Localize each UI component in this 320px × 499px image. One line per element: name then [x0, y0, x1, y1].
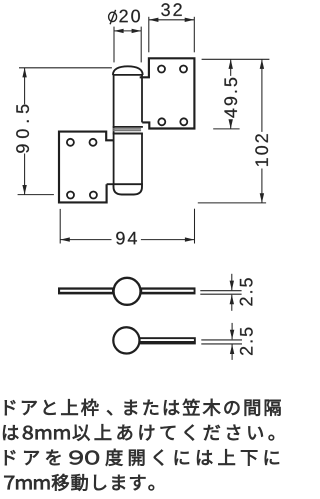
hinge knuckle top dome: [113, 66, 143, 75]
upper leaf plate (right): [140, 58, 195, 128]
hinge knuckle right edge upper: [141, 75, 143, 123]
dimension 102 line upper segment: [261, 59, 263, 132]
dimension 94 label: [116, 232, 137, 245]
dimension phi20 arrow line: [114, 30, 141, 32]
fig1 dimension 2.5 arrows: [231, 274, 233, 290]
fig1 thickness extension lines: [200, 290, 241, 292]
dimension 102 line lower segment: [261, 169, 263, 203]
hinge knuckle bottom cap line: [107, 183, 143, 185]
upper plate screw hole bottom-right: [180, 118, 187, 125]
upper plate screw hole top-left: [158, 66, 165, 73]
dimension 102 label: [255, 134, 268, 166]
hinge knuckle top cap line: [113, 74, 143, 76]
dimension 94 line left segment: [60, 239, 111, 241]
lower plate screw hole bottom-right: [90, 192, 97, 199]
dimension 49.5 bottom extension line: [213, 128, 239, 130]
fig2 dimension 2.5 arrows: [231, 323, 233, 339]
dimension 90.5 top extension line: [19, 67, 112, 69]
dimension 49.5 label: [224, 78, 237, 118]
lower leaf plate (left): [59, 132, 114, 203]
knuckle junction gray line 1: [113, 128, 141, 130]
knuckle junction line lower: [113, 133, 143, 135]
dimension 90.5 bottom extension line: [18, 194, 54, 196]
dimension phi20 label: phi symbol: [109, 12, 117, 21]
caption line 2: は8mm以上あけてください。: [3, 424, 274, 441]
caption line 3: ドアを９０度開くには上下に: [5, 449, 279, 466]
shared top extension line for 49.5 and 102: [202, 58, 270, 60]
caption line 1: ドアと上枠、または笠木の間隔: [5, 399, 281, 416]
fig2 thickness extension lines: [201, 339, 242, 341]
dimension 49.5 line upper segment: [230, 59, 232, 76]
top view fig1 right leaf strip: [141, 287, 196, 294]
dimension 94 line right segment: [141, 239, 195, 241]
upper plate screw hole bottom-left: [158, 118, 165, 125]
fig1 label 2.5: [240, 278, 253, 305]
dimension 90.5 label: [16, 105, 29, 153]
top view fig1 left leaf strip: [58, 287, 114, 294]
knuckle junction line upper: [113, 126, 143, 128]
dimension 94 right extension line: [194, 209, 196, 244]
upper plate screw hole top-right: [180, 66, 187, 73]
dimension 102 bottom extension line: [198, 202, 266, 204]
dimension 32 label: [161, 3, 181, 16]
dimension 32 extension lines: [148, 17, 150, 53]
top view fig2 knuckle circle: [113, 327, 139, 353]
dimension 94 left extension line: [59, 209, 61, 244]
dimension 49.5 line lower segment: [230, 122, 232, 129]
dimension phi20 label: 20: [120, 10, 140, 23]
dimension 90.5 line lower segment: [24, 154, 26, 195]
fig2 label 2.5: [240, 328, 253, 355]
hinge knuckle right edge lower: [141, 134, 143, 185]
knuckle junction gray line 2: [113, 130, 141, 132]
lower plate screw hole top-right: [90, 139, 97, 146]
top view fig1 knuckle circle: [114, 278, 141, 305]
dimension 90.5 line upper segment: [24, 68, 26, 105]
dimension 32 arrow line: [149, 19, 195, 21]
top view fig2 right leaf strip: [139, 337, 196, 344]
lower plate screw hole top-left: [67, 139, 74, 146]
caption line 4: 7mm移動します。: [4, 474, 154, 491]
hinge knuckle bottom dome: [114, 184, 143, 194]
hinge knuckle left edge: [113, 75, 115, 184]
dimension phi20 extension lines: [113, 27, 115, 63]
lower plate screw hole bottom-left: [67, 192, 74, 199]
